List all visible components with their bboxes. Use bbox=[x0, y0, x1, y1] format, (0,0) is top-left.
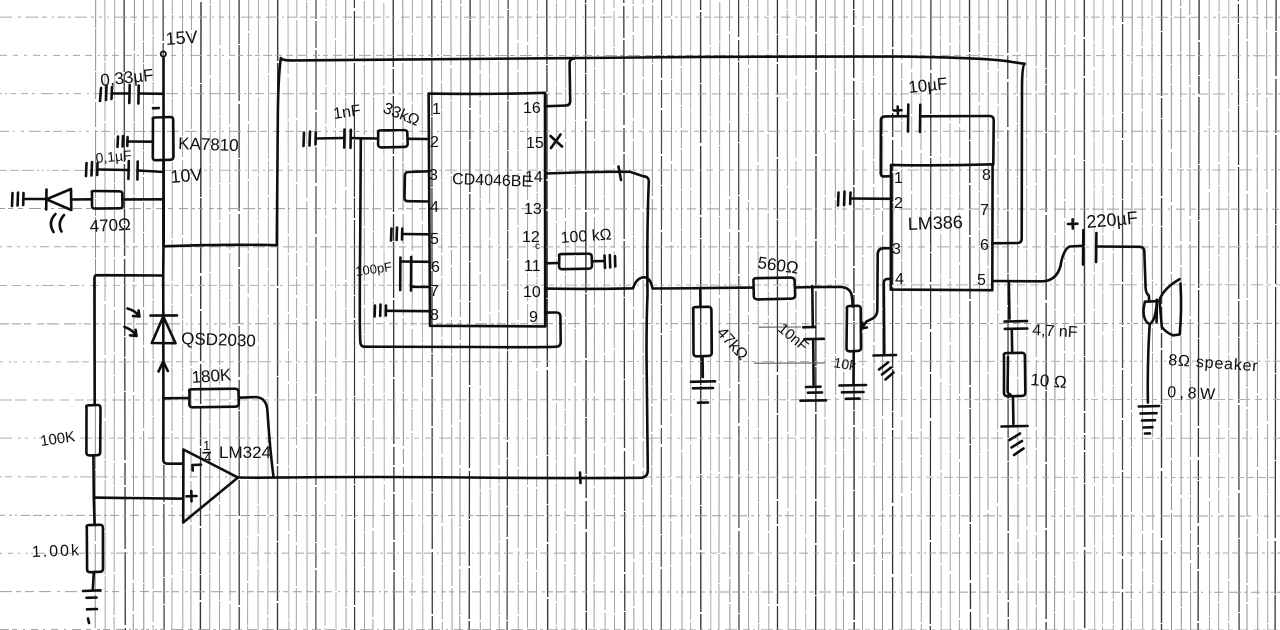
ground (LED branch, left ticks) bbox=[12, 193, 46, 207]
ground (pin 4) bbox=[874, 355, 897, 380]
svg-text:3: 3 bbox=[429, 167, 438, 184]
svg-text:13: 13 bbox=[524, 201, 542, 218]
svg-text:1.00k: 1.00k bbox=[32, 542, 82, 561]
svg-text:7: 7 bbox=[980, 202, 989, 219]
svg-text:LM324: LM324 bbox=[219, 443, 271, 462]
resistor R 470ohm bbox=[92, 191, 164, 209]
loudspeaker LS 8ohm bbox=[1144, 279, 1182, 402]
capacitor C 0.1uF bbox=[97, 161, 163, 180]
op-amp U 1/4 LM324 bbox=[183, 450, 238, 523]
potentiometer R 10k bbox=[846, 306, 866, 384]
svg-text:LM386: LM386 bbox=[907, 212, 963, 234]
svg-text:5: 5 bbox=[430, 231, 439, 248]
capacitor C 0.33uF bbox=[112, 85, 164, 104]
resistor R 560ohm bbox=[753, 278, 852, 307]
svg-text:7: 7 bbox=[430, 283, 439, 300]
ground (0.1uF, left ticks) bbox=[86, 162, 98, 176]
capacitor C 10nF (to ground) bbox=[803, 286, 824, 384]
wire (pin 16 to supply rail) bbox=[545, 59, 575, 107]
ground (Zobel) bbox=[1002, 426, 1028, 455]
svg-text:470Ω: 470Ω bbox=[89, 215, 131, 236]
svg-text:QSD2030: QSD2030 bbox=[181, 329, 256, 351]
svg-text:2: 2 bbox=[894, 195, 903, 212]
node 15V terminal bbox=[161, 51, 166, 246]
ground (regulator GND pin) bbox=[118, 136, 153, 147]
wire (sensor rail: 470R node down to photodiode) bbox=[162, 199, 165, 315]
svg-text:14: 14 bbox=[525, 169, 543, 186]
regulator U KA7810 bbox=[153, 108, 174, 160]
ground (pin 8, left ticks) bbox=[375, 305, 429, 317]
resistor R 180K (feedback) bbox=[163, 389, 273, 477]
ground (pin 2, left ticks) bbox=[838, 192, 891, 206]
wire (pin 5 output) bbox=[992, 246, 1082, 281]
no-connect X (pin 15) bbox=[551, 135, 563, 149]
wire (pin 10 output with hop) bbox=[545, 277, 753, 289]
svg-text:8: 8 bbox=[982, 167, 991, 184]
wire (regulator output rail down) bbox=[162, 160, 165, 246]
svg-text:KA7810: KA7810 bbox=[178, 134, 239, 155]
svg-text:16: 16 bbox=[523, 100, 541, 117]
wire (rail to inverting input) bbox=[163, 399, 183, 464]
ground (33uF, left ticks) bbox=[100, 86, 112, 101]
resistor R 47k (to ground) bbox=[693, 288, 712, 377]
IC U CD4046BE body bbox=[429, 93, 546, 327]
ground (100k bottom) bbox=[83, 590, 101, 623]
ground (10k pot) bbox=[840, 385, 867, 399]
ground (pin 5, left ticks) bbox=[391, 228, 429, 241]
svg-text:100 kΩ: 100 kΩ bbox=[560, 226, 612, 247]
svg-text:9: 9 bbox=[529, 309, 538, 326]
svg-text:6: 6 bbox=[431, 259, 440, 276]
svg-text:4: 4 bbox=[204, 450, 211, 465]
IC U LM386 body bbox=[891, 164, 993, 290]
wire (non-inverting input) bbox=[94, 498, 183, 499]
capacitor C 10uF (pins 1-8) bbox=[881, 105, 994, 177]
capacitor C 220uF bbox=[1068, 219, 1149, 301]
svg-text:5: 5 bbox=[977, 272, 986, 289]
svg-text:1: 1 bbox=[432, 101, 441, 118]
svg-text:c: c bbox=[535, 241, 540, 252]
svg-text:2: 2 bbox=[430, 134, 439, 151]
diode D LED bbox=[46, 189, 92, 232]
wire (pins 3-4 jumper) bbox=[404, 171, 428, 201]
resistor R 100K (upper left vertical) bbox=[86, 275, 163, 497]
svg-text:15: 15 bbox=[526, 135, 544, 152]
ground (10nF) bbox=[801, 387, 827, 401]
resistor R 10ohm (Zobel) bbox=[1004, 353, 1025, 424]
svg-text:10: 10 bbox=[523, 284, 541, 301]
ground (pin 11, right ticks) bbox=[605, 255, 616, 268]
wire (10V output to top supply rail) bbox=[164, 58, 281, 246]
svg-text:6: 6 bbox=[980, 237, 989, 254]
resistor R 100k (pin 11) bbox=[545, 254, 604, 270]
svg-text:10µF: 10µF bbox=[907, 74, 948, 97]
resistor R 33k (pin 2) bbox=[378, 130, 429, 147]
svg-text:0,8W: 0,8W bbox=[1167, 384, 1219, 404]
photodiode D QSD2030 bbox=[125, 309, 178, 399]
wire (op-amp output to pin 14 riser) bbox=[238, 176, 649, 483]
svg-text:1: 1 bbox=[894, 170, 903, 187]
svg-text:4,7 nF: 4,7 nF bbox=[1032, 322, 1078, 341]
svg-text:CD4046BE: CD4046BE bbox=[452, 171, 533, 191]
wire (pin 6 to supply rail) bbox=[992, 64, 1024, 244]
ground (47k) bbox=[691, 381, 715, 402]
svg-text:15V: 15V bbox=[165, 27, 198, 49]
svg-text:0,1µF: 0,1µF bbox=[95, 147, 132, 166]
wire (pot wiper to LM386 pin 3) bbox=[867, 248, 891, 321]
ground (speaker) bbox=[1139, 406, 1159, 434]
svg-text:10V: 10V bbox=[170, 164, 204, 187]
resistor R 100k (bottom left, to ground) bbox=[87, 498, 103, 589]
svg-text:8: 8 bbox=[430, 307, 439, 324]
capacitor C 1nF bbox=[344, 130, 377, 148]
svg-text:180K: 180K bbox=[191, 365, 233, 387]
ground (1nF cap, left ticks) bbox=[304, 132, 344, 147]
svg-text:4: 4 bbox=[430, 199, 439, 216]
svg-text:10 Ω: 10 Ω bbox=[1030, 370, 1068, 392]
svg-text:11: 11 bbox=[524, 258, 541, 275]
wire (1nF junction loop to pin 9) bbox=[360, 138, 561, 347]
wire (pin 4 to ground) bbox=[884, 279, 891, 353]
svg-text:3: 3 bbox=[892, 241, 901, 258]
capacitor C 4.7nF (Zobel) bbox=[1005, 281, 1028, 352]
wire (top supply rail) bbox=[281, 57, 1025, 64]
svg-text:4: 4 bbox=[895, 271, 904, 288]
capacitor C 100pF (pins 6-7) bbox=[400, 257, 429, 291]
wire (pin 14 horizontal) bbox=[546, 167, 644, 181]
wire (dark grid segment artifacts) bbox=[754, 327, 825, 363]
